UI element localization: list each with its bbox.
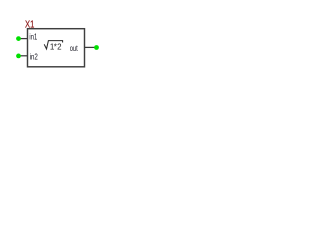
wire in1 [19, 38, 28, 40]
wire out [85, 46, 97, 48]
subcircuit X1 body [28, 29, 85, 67]
node in1 [16, 36, 21, 41]
node out [94, 45, 99, 50]
svg-text:in2: in2 [30, 52, 38, 62]
svg-text:out: out [70, 43, 78, 53]
node in2 [16, 54, 21, 59]
value sqrt(1*2) [44, 41, 62, 52]
svg-text:X1: X1 [25, 18, 34, 29]
svg-text:in1: in1 [29, 32, 37, 42]
wire in2 [19, 55, 28, 57]
svg-text:2: 2 [57, 43, 62, 52]
